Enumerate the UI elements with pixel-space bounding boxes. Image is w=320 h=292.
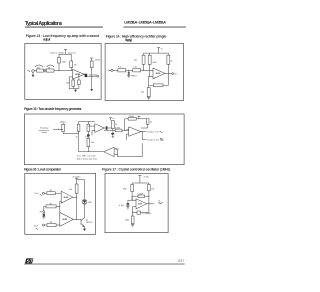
- svg-text:3.5k: 3.5k: [118, 66, 122, 68]
- svg-text:output: output: [43, 38, 51, 42]
- svg-text:R1: R1: [50, 190, 52, 192]
- svg-text:1k: 1k: [76, 136, 78, 138]
- svg-text:1/4 LM358: 1/4 LM358: [75, 74, 80, 76]
- svg-text:Vo: Vo: [158, 200, 160, 202]
- svg-text:+15Vdc: +15Vdc: [94, 59, 101, 61]
- svg-text:1.10M: 1.10M: [137, 194, 143, 196]
- svg-text:0.1µF: 0.1µF: [119, 205, 125, 207]
- svg-text:1 x 1(MHz): 1 x 1(MHz): [142, 213, 152, 215]
- svg-text:1/2 LM358: 1/2 LM358: [62, 219, 67, 221]
- svg-text:VOutput 1 fo: VOutput 1 fo: [147, 131, 159, 134]
- svg-text:VOutput 2 fo/2: VOutput 2 fo/2: [147, 138, 160, 141]
- svg-text:Figure 17 : Crystal controlled: Figure 17 : Crystal controlled oscillato…: [102, 167, 170, 171]
- svg-text:10k: 10k: [141, 92, 144, 94]
- svg-text:LM158,A - LM258,A - LM358,A: LM158,A - LM258,A - LM358,A: [124, 20, 166, 25]
- svg-text:10k: 10k: [48, 67, 51, 69]
- svg-text:10k: 10k: [69, 189, 72, 191]
- svg-text:Figure 16 : Level comparator: Figure 16 : Level comparator: [24, 168, 62, 172]
- svg-text:Vin2: Vin2: [34, 225, 38, 227]
- svg-text:LED: LED: [88, 202, 92, 204]
- svg-text:1 M: 1 M: [133, 66, 137, 68]
- svg-text:Figure 13 : Low frequency op-a: Figure 13 : Low frequency op-amp with cr…: [26, 34, 99, 38]
- svg-text:fo1 = 1kHz , fo2 = fo/2: fo1 = 1kHz , fo2 = fo/2: [77, 156, 96, 158]
- svg-text:source: source: [42, 131, 48, 134]
- svg-text:R2: R2: [50, 203, 52, 205]
- svg-text:10k: 10k: [134, 60, 137, 62]
- svg-text:10k: 10k: [151, 188, 154, 190]
- svg-text:2N2222: 2N2222: [86, 222, 93, 224]
- svg-text:(10k): (10k): [125, 219, 130, 221]
- svg-text:11/13: 11/13: [177, 258, 184, 262]
- svg-text:100k: 100k: [62, 62, 66, 64]
- svg-text:10k: 10k: [85, 136, 88, 138]
- svg-text:100k: 100k: [152, 62, 156, 64]
- svg-text:5k: 5k: [150, 122, 152, 124]
- svg-text:supply): supply): [125, 38, 132, 42]
- svg-text:1N914: 1N914: [131, 75, 137, 77]
- svg-text:R3: R3: [50, 222, 52, 224]
- svg-text:1/2 LM358: 1/2 LM358: [63, 197, 68, 199]
- svg-text:LM358: LM358: [138, 204, 142, 206]
- svg-text:Typical Applications: Typical Applications: [25, 21, 63, 27]
- svg-text:(200k): (200k): [129, 116, 135, 118]
- svg-text:+5 Vdc: +5 Vdc: [143, 176, 149, 178]
- svg-text:10k: 10k: [37, 67, 40, 69]
- svg-text:Vo: Vo: [175, 74, 177, 76]
- svg-text:100k: 100k: [66, 82, 70, 84]
- svg-text:Vo 2(Vdc): Vo 2(Vdc): [89, 74, 98, 76]
- svg-text:Figure 15 : Two-decade frequen: Figure 15 : Two-decade frequency generat…: [24, 107, 82, 111]
- svg-text:5k: 5k: [171, 61, 173, 63]
- svg-text:1/4 LM358: 1/4 LM358: [155, 73, 160, 75]
- svg-text:47k: 47k: [74, 65, 77, 67]
- svg-text:Figure 14 : High efficiency re: Figure 14 : High efficiency rectifier (s…: [106, 34, 167, 38]
- svg-text:100k: 100k: [123, 188, 127, 190]
- svg-text:both in phase (see text): both in phase (see text): [77, 157, 97, 160]
- svg-text:2k: 2k: [115, 124, 117, 126]
- svg-text:(100k): (100k): [115, 128, 121, 130]
- svg-text:10k: 10k: [91, 142, 94, 144]
- svg-text:Vin1: Vin1: [35, 193, 39, 195]
